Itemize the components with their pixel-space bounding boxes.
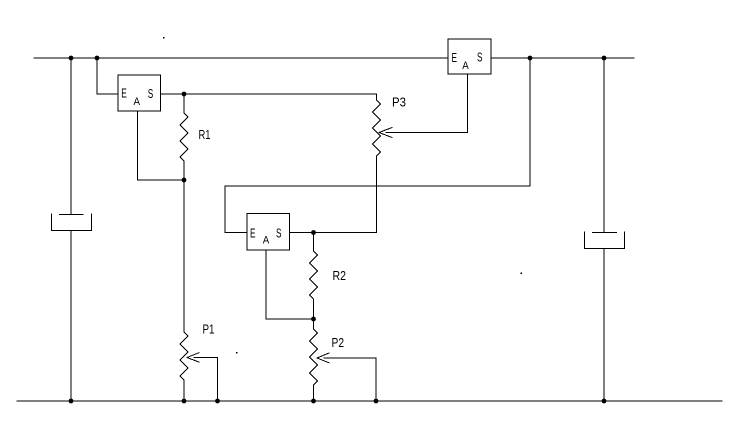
node junction dot P2 bottom bbox=[311, 399, 316, 404]
amplifier U1 (E A S box) bbox=[118, 75, 161, 111]
wire R1 bottom to P1 bbox=[183, 180, 185, 332]
capacitor C2 bbox=[585, 232, 625, 249]
svg-text:A: A bbox=[134, 96, 141, 108]
node junction dot U1 output bbox=[182, 92, 187, 97]
svg-text:S: S bbox=[148, 86, 154, 101]
wire P2 wiper return bbox=[317, 353, 376, 401]
wire P1 wiper return bbox=[187, 353, 218, 401]
svg-text:R2: R2 bbox=[333, 269, 347, 283]
wire U2 pin A to R2 bottom bbox=[266, 250, 314, 319]
wire feedback from bus node to U2 input bbox=[225, 58, 530, 233]
svg-text:E: E bbox=[452, 50, 458, 65]
resistor R1 bbox=[180, 94, 188, 180]
potentiometer P1 bbox=[180, 332, 188, 401]
node junction dot top bus U1 tap bbox=[95, 56, 100, 61]
wire top supply bus bbox=[34, 57, 634, 59]
potentiometer P2 bbox=[310, 319, 318, 401]
wire U1 pin A to R1 bottom bbox=[138, 111, 185, 180]
wire U1 output to P3 top bbox=[160, 93, 377, 95]
node junction dot bottom bus right bbox=[602, 399, 607, 404]
node junction dot top bus feedback tap bbox=[528, 56, 533, 61]
svg-text:S: S bbox=[276, 225, 282, 240]
wire left rail bbox=[70, 58, 72, 401]
svg-text:P3: P3 bbox=[392, 96, 406, 110]
node junction dot top bus right bbox=[602, 56, 607, 61]
svg-text:P1: P1 bbox=[203, 323, 215, 337]
node junction dot top bus left bbox=[69, 56, 74, 61]
wire P3 wiper to U3 pin A bbox=[379, 74, 468, 138]
svg-text:A: A bbox=[462, 60, 469, 72]
amplifier U2 (E A S box) bbox=[247, 214, 290, 251]
resistor R2 bbox=[310, 233, 318, 320]
svg-text:A: A bbox=[263, 235, 270, 247]
amplifier U3 (E A S box) bbox=[448, 39, 491, 74]
node junction dot R1 bottom bbox=[182, 178, 187, 183]
node junction dot P1 bottom bbox=[182, 399, 187, 404]
svg-text:E: E bbox=[250, 226, 256, 241]
node junction dot bottom bus left bbox=[69, 399, 74, 404]
svg-text:P2: P2 bbox=[332, 336, 345, 350]
node junction dot R2 top bbox=[311, 230, 316, 235]
node junction dot P1 wiper return bbox=[215, 399, 220, 404]
wire U1 input from bus bbox=[97, 58, 118, 94]
wire right rail bbox=[603, 58, 605, 401]
potentiometer P3 bbox=[373, 94, 381, 233]
svg-text:E: E bbox=[121, 86, 127, 101]
capacitor C1 bbox=[52, 214, 92, 231]
svg-text:R1: R1 bbox=[199, 128, 211, 142]
node junction dot P2 wiper return bbox=[374, 399, 379, 404]
svg-text:S: S bbox=[477, 49, 483, 64]
wire bottom supply bus bbox=[17, 400, 722, 402]
wire U2 output to P3 bottom bbox=[289, 232, 377, 234]
node junction dot R2 bottom bbox=[311, 317, 316, 322]
